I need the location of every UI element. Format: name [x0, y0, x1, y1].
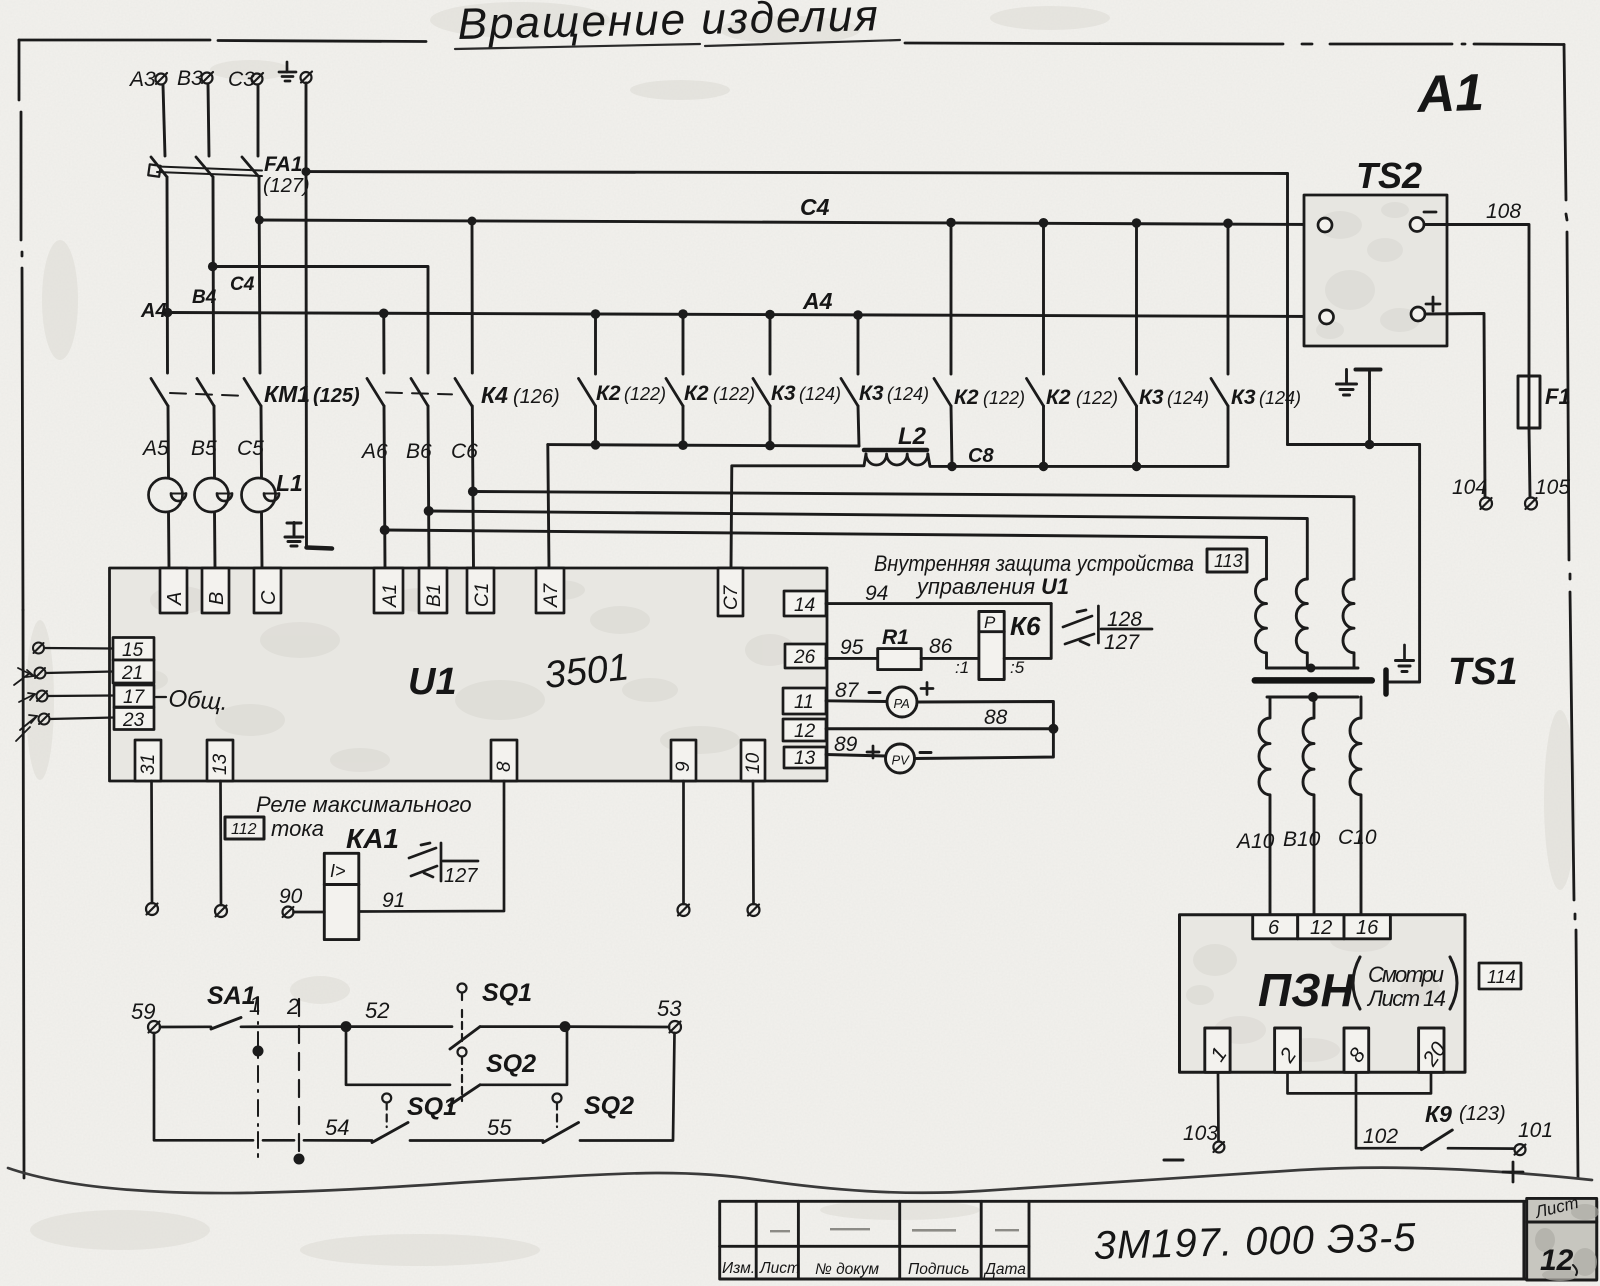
U1 pin 11	[783, 688, 826, 714]
wire pins 2-20 link	[1288, 1072, 1432, 1093]
svg-text:Смотри: Смотри	[1368, 962, 1444, 987]
control unit U1 box	[110, 568, 828, 781]
svg-text:А5: А5	[141, 437, 169, 460]
node C6 tap	[468, 217, 477, 226]
wire 87 pin 11 to ammeter	[826, 699, 887, 703]
svg-text:105: 105	[1535, 476, 1570, 499]
FA1 linkage bar	[157, 167, 262, 177]
svg-text:К6: К6	[1010, 611, 1041, 641]
torn paper edge	[8, 1168, 1592, 1193]
wire PE down to earth (left of U1)	[305, 172, 308, 547]
limit switch SQ1 (upper)	[458, 984, 467, 1045]
svg-text:В1: В1	[424, 584, 445, 607]
svg-text:А1: А1	[1414, 64, 1484, 124]
limit switch SQ1 (lower)	[382, 1094, 391, 1128]
contact K3 (124) #1 top wire	[769, 315, 772, 375]
svg-text:114: 114	[1487, 967, 1516, 987]
svg-text:тока: тока	[271, 816, 324, 841]
wire K2#3 to C8	[951, 406, 952, 466]
svg-text:54: 54	[325, 1115, 349, 1140]
wire A6 junction to TS1 coil 1	[385, 530, 1267, 579]
svg-text:С4: С4	[230, 274, 255, 295]
K4 dashed linkage	[386, 393, 452, 395]
transformer TS1 secondary winding 1	[1259, 697, 1270, 914]
relay coil K6 (P)	[979, 612, 1004, 680]
svg-text:Подпись: Подпись	[908, 1261, 969, 1278]
wire C4 bus	[259, 220, 1318, 225]
svg-text:Лист: Лист	[759, 1260, 800, 1277]
wire terminal 90 to KA1	[294, 911, 325, 914]
svg-text:С10: С10	[1338, 826, 1377, 849]
PZN bottom pin 8	[1344, 1028, 1370, 1072]
svg-text:102: 102	[1363, 1125, 1398, 1148]
svg-text:89: 89	[834, 733, 858, 756]
wire terminal to pin 21	[46, 672, 114, 674]
svg-text:С: С	[258, 590, 280, 605]
svg-text:А4: А4	[140, 300, 167, 322]
PZN bottom pin 1	[1205, 1028, 1232, 1072]
node K3#2 on A4	[853, 310, 863, 320]
contactor KM1 pole A	[151, 379, 168, 407]
wire A7 bus	[548, 445, 859, 446]
svg-text:127: 127	[1104, 631, 1140, 654]
wire C6 K4 to junction and U1 pin C1	[472, 406, 473, 568]
node K2#2 on A7 bus	[678, 440, 688, 450]
wire SQ2 branch (lower parallel)	[346, 1027, 450, 1085]
box 114	[1479, 963, 1521, 989]
U1 pin B	[202, 568, 229, 613]
U1 pin 17	[114, 685, 154, 708]
wire K2#4 to C8	[1042, 406, 1045, 466]
voltmeter PV	[886, 744, 915, 773]
KM1 dashed linkage	[170, 393, 238, 396]
svg-text:15: 15	[122, 640, 144, 661]
svg-text:В10: В10	[1283, 828, 1321, 851]
wire B6 K4 to junction and U1 pin B1	[428, 406, 429, 568]
svg-text:87: 87	[835, 679, 860, 702]
wire K3#2 to A7 bus	[858, 406, 859, 446]
svg-text:(124): (124)	[887, 384, 929, 404]
svg-text:С5: С5	[237, 437, 264, 460]
node K3#3 on C4	[1132, 218, 1142, 228]
terminal below pin 31	[146, 903, 158, 915]
wire 91 KA1 to U1 pin 8	[359, 781, 504, 912]
svg-text:Р: Р	[984, 613, 996, 632]
wire A6 from A4 bus to K4	[382, 313, 385, 373]
wire phase A3 down to FA1	[163, 85, 165, 156]
terminal below pin 13	[215, 905, 227, 917]
node K3#4 on C4	[1223, 219, 1233, 229]
wire SQ2 return to node 53a	[480, 1027, 567, 1085]
svg-text:С8: С8	[968, 445, 994, 467]
U1 pin 26	[785, 644, 826, 668]
svg-text:В4: В4	[192, 287, 217, 308]
terminal C3	[252, 73, 264, 85]
minus sign at 103	[1164, 1159, 1183, 1162]
node 52	[341, 1021, 352, 1032]
node 88	[1048, 724, 1058, 734]
svg-text:21: 21	[121, 663, 143, 684]
svg-text:(122): (122)	[624, 384, 666, 404]
node on position line 2	[294, 1154, 305, 1165]
svg-text:TS1: TS1	[1448, 651, 1518, 693]
node K2#4 on C4	[1039, 218, 1049, 228]
svg-text:9: 9	[673, 761, 694, 772]
contactor K4 pole B6	[411, 379, 428, 407]
svg-text:А4: А4	[802, 288, 833, 314]
wire K2#1 to A7 bus	[594, 406, 597, 445]
minus sign at PV	[920, 751, 931, 754]
terminal B3	[202, 72, 214, 84]
wire lower branch to terminal 53	[580, 1033, 675, 1141]
svg-text:16: 16	[1356, 917, 1379, 939]
svg-text:59: 59	[131, 999, 155, 1024]
svg-text:R1: R1	[882, 626, 909, 649]
svg-text:127: 127	[444, 865, 478, 887]
svg-text:13: 13	[210, 753, 231, 775]
svg-text:U1: U1	[408, 661, 457, 703]
plus sign at 101	[1503, 1162, 1523, 1182]
svg-text:Общ.: Общ.	[168, 685, 229, 716]
svg-text:101: 101	[1518, 1119, 1553, 1142]
wire PA to node 88	[917, 702, 1053, 729]
contact K3 (124) #3 blade	[1120, 379, 1137, 407]
TS1 core	[1255, 677, 1372, 684]
U1 pin A7	[536, 568, 564, 613]
svg-text:А10: А10	[1235, 830, 1275, 853]
svg-text:12: 12	[794, 721, 816, 742]
wire 89 pin 13 to voltmeter	[826, 755, 886, 757]
current transformer L1 phase C	[242, 478, 280, 512]
svg-text:12: 12	[1540, 1244, 1574, 1277]
svg-text:112: 112	[231, 821, 257, 838]
svg-text:К3: К3	[1231, 386, 1256, 409]
svg-text:Изм.: Изм.	[722, 1260, 755, 1277]
wire pin 1 to terminal 103	[1217, 1072, 1220, 1141]
wire pin 31 to terminal	[150, 781, 153, 903]
svg-text:1: 1	[249, 992, 261, 1017]
svg-text:SQ1: SQ1	[482, 979, 532, 1007]
fuse F1	[1518, 376, 1540, 428]
svg-text:86: 86	[929, 635, 953, 658]
wire fuse to terminal 105	[1529, 428, 1530, 497]
svg-text:(126): (126)	[513, 386, 560, 408]
wire K3#4 to C8	[1227, 406, 1230, 466]
svg-text:94: 94	[865, 582, 888, 605]
wire 59 to SA1	[160, 1025, 211, 1028]
svg-text:53: 53	[657, 996, 682, 1021]
transformer TS1 secondary winding 2	[1303, 697, 1314, 914]
plus sign at PV	[867, 746, 879, 758]
contact K2 (122) #4 blade	[1027, 379, 1044, 407]
minus sign at PA	[869, 691, 880, 694]
wire PE from ground terminal down	[305, 83, 308, 171]
node K2#4 on C8	[1039, 462, 1049, 472]
KA1 auxiliary contact symbol 127	[409, 843, 478, 881]
svg-text:С1: С1	[472, 583, 493, 607]
wire pin 10 to terminal	[752, 781, 755, 904]
U1 pin 31	[135, 740, 161, 781]
wire A4 bus	[168, 313, 1319, 317]
wire A7 bus down to U1 pin A7	[548, 445, 549, 568]
limit switch SQ2 (upper pair)	[458, 1048, 467, 1102]
node K2#1 on A4	[591, 309, 601, 319]
input terminal 15	[33, 643, 44, 654]
node K2#3 on C4	[946, 218, 956, 228]
node A6 to TS1 tap	[380, 525, 390, 535]
transformer TS1 primary winding 3	[1343, 579, 1354, 668]
wire B5 CT to U1 pin B	[213, 512, 216, 568]
contact K2 (122) #3 top wire	[950, 223, 953, 375]
node PE tap	[302, 167, 311, 176]
wire A5	[167, 406, 170, 478]
wire phase B3 down to FA1	[208, 84, 209, 156]
wire phase B FA1 to B4 tap and KM1	[212, 177, 215, 373]
svg-text:А7: А7	[541, 582, 562, 608]
svg-text:17: 17	[123, 687, 146, 708]
svg-text:С4: С4	[800, 194, 830, 220]
svg-text:А: А	[164, 592, 186, 606]
TS1 secondary star bus	[1267, 696, 1358, 699]
svg-text:КА1: КА1	[346, 823, 399, 854]
svg-text:№ докум: № докум	[815, 1261, 879, 1278]
wire PV to node 88	[915, 729, 1054, 759]
svg-text:К2: К2	[1046, 386, 1071, 409]
svg-text:2: 2	[286, 994, 299, 1019]
svg-text:TS2: TS2	[1356, 155, 1422, 196]
contact K2 (122) #1 blade	[579, 379, 596, 407]
PZN bottom pin 2	[1275, 1028, 1302, 1072]
wire B4 tap to K4 middle	[213, 267, 428, 374]
current transformer L1 phase A	[149, 478, 187, 512]
wire K9 to terminal 101	[1448, 1147, 1514, 1150]
svg-text:КМ1: КМ1	[264, 381, 310, 407]
circuit breaker FA1 pole C	[242, 157, 259, 177]
SA1 position line 1 (dash-dot)	[257, 997, 259, 1157]
svg-text:В5: В5	[191, 437, 217, 460]
node K2#1 on A7 bus	[591, 440, 601, 450]
limit switch SQ2 (lower)	[553, 1094, 562, 1128]
wire lower branch from 59	[154, 1033, 253, 1140]
wire pin 8 to contact K9	[1356, 1072, 1421, 1148]
wire SQ1 to node 53a	[480, 1025, 565, 1028]
plus sign	[1426, 297, 1440, 311]
ground symbol at top input terminal	[279, 62, 296, 81]
svg-text:13: 13	[794, 748, 816, 769]
svg-text:(127): (127)	[263, 175, 310, 197]
node K3#3 on C8	[1132, 462, 1142, 472]
wire pin 9 to terminal	[682, 781, 685, 904]
wire K6 to 94 riser	[1004, 604, 1051, 659]
terminal A3	[156, 73, 168, 85]
wire C5	[260, 406, 263, 478]
U1 pin 10	[741, 740, 765, 781]
PZN top pins 6 12 16	[1253, 915, 1391, 939]
svg-text:90: 90	[279, 885, 303, 908]
svg-text:I>: I>	[330, 861, 346, 881]
U1 pin 23	[114, 708, 154, 732]
svg-text:SQ2: SQ2	[584, 1092, 634, 1120]
svg-text:К3: К3	[859, 382, 884, 405]
svg-text:В3: В3	[177, 67, 203, 90]
node on position line 1	[253, 1046, 264, 1057]
svg-text:103: 103	[1183, 1122, 1218, 1145]
svg-text:SQ2: SQ2	[486, 1050, 536, 1078]
TS2 terminal AC top-left	[1318, 218, 1332, 232]
wire 88 from pin 12	[826, 727, 1053, 730]
wire L2 left lead to U1 pin C7	[731, 454, 866, 568]
current transformer L1 phase B	[195, 478, 233, 512]
contact K2 (122) #2 blade	[666, 379, 683, 407]
terminal below pin 9	[678, 904, 690, 916]
node PE ground junction	[1365, 440, 1375, 450]
TS1 screen bar	[1383, 670, 1389, 694]
svg-text:(124): (124)	[1259, 388, 1301, 408]
node C4 tap on phase C	[255, 216, 264, 225]
contact K3 (124) #4 top wire	[1227, 223, 1230, 374]
svg-text:3М197. 000 Э3-5: 3М197. 000 Э3-5	[1093, 1216, 1417, 1268]
svg-text:К4: К4	[481, 382, 508, 408]
svg-text:11: 11	[794, 692, 814, 713]
arrow marks at left terminals	[14, 668, 37, 741]
node K3#1 on A7 bus	[765, 441, 775, 451]
node B6 to TS1 tap	[424, 506, 434, 516]
label (Смотри Лист 14)	[1353, 957, 1360, 1009]
svg-text:К9: К9	[1425, 1101, 1452, 1127]
wire node 52 to SQ1	[346, 1025, 452, 1028]
title block	[720, 1198, 1597, 1280]
U1 pin 13 bottom	[207, 740, 233, 781]
wire node 53a to terminal 53	[565, 1025, 669, 1028]
PZN unit box	[1180, 915, 1466, 1073]
ground symbol below TS2	[1337, 370, 1381, 445]
TS2 terminal plus	[1411, 307, 1425, 321]
node K2#2 on A4	[678, 309, 688, 319]
node K2#3 on C8	[947, 462, 957, 472]
K6 auxiliary contact symbol 128/127	[1063, 606, 1152, 645]
svg-text:95: 95	[840, 636, 864, 659]
wire C6 junction to TS1 coil 3	[473, 492, 1354, 580]
wire K2#2 to A7 bus	[682, 406, 685, 445]
svg-text:26: 26	[793, 647, 816, 668]
U1 pin 21	[113, 660, 154, 684]
wire SA1 to node 52	[241, 1025, 346, 1028]
contactor K4 pole C6	[455, 379, 472, 407]
svg-text:3501: 3501	[543, 646, 631, 697]
wire K3#3 to C8	[1135, 406, 1138, 466]
svg-text:ПЗН: ПЗН	[1258, 964, 1355, 1016]
svg-text:(125): (125)	[313, 385, 360, 407]
wire PE horizontal (top, from ground line to TS2 side)	[306, 172, 1288, 174]
transformer TS1 primary winding 2	[1296, 579, 1307, 668]
svg-text:РА: РА	[894, 696, 910, 711]
transformer TS1 secondary winding 3	[1350, 697, 1361, 914]
svg-text:управления U1: управления U1	[915, 574, 1069, 599]
overcurrent relay KA1	[324, 853, 359, 939]
node TS1 secondary star	[1308, 692, 1318, 702]
svg-text:108: 108	[1486, 200, 1521, 223]
svg-text:104: 104	[1452, 476, 1487, 499]
box 112	[225, 817, 264, 839]
svg-text:(122): (122)	[1076, 388, 1118, 408]
svg-text:А1: А1	[380, 584, 401, 608]
U1 pin 8	[491, 740, 517, 781]
plus sign at PA	[921, 683, 933, 695]
svg-text:(122): (122)	[983, 388, 1025, 408]
svg-text:Внутренняя защита устройства: Внутренняя защита устройства	[874, 551, 1194, 576]
contact K2 (122) #2 top wire	[682, 314, 685, 374]
svg-text:В: В	[206, 592, 228, 605]
contact K2 (122) #1 top wire	[594, 314, 597, 374]
wire 108 (minus output)	[1424, 225, 1529, 377]
wire A6 K4 to junction and U1 pin A1	[384, 406, 385, 568]
wire 94 from pin 14	[826, 602, 1051, 605]
input terminal 17	[37, 691, 48, 702]
terminal 105	[1525, 498, 1537, 510]
terminal below pin 10	[748, 904, 760, 916]
node K3#1 on A4	[765, 310, 775, 320]
input terminal 23	[39, 714, 50, 725]
wire A5 CT to U1 pin A	[167, 512, 170, 568]
ammeter PA	[887, 687, 917, 717]
wire PE down to TS1 screen	[1389, 445, 1420, 683]
minus sign	[1424, 211, 1436, 214]
U1 pin A1	[374, 568, 403, 613]
title block captions	[722, 1260, 1026, 1278]
svg-text:91: 91	[382, 889, 405, 912]
contact K3 (124) #1 blade	[753, 379, 770, 407]
transformer TS1 primary winding 1	[1255, 579, 1266, 668]
wire PE down left of TS2	[1286, 174, 1289, 445]
svg-text:31: 31	[138, 754, 159, 775]
U1 pin C7	[718, 568, 743, 616]
terminal 90	[283, 907, 294, 918]
wire phase A FA1 to A4 tap and KM1	[166, 177, 169, 373]
contact K9 (123)	[1421, 1130, 1452, 1150]
earth symbol below PE line	[285, 523, 332, 549]
node 53a	[560, 1021, 571, 1032]
svg-text:SQ1: SQ1	[407, 1093, 457, 1121]
U1 pin 15	[113, 638, 154, 662]
sheet title "Вращение изделия" (handwritten)	[457, 0, 880, 49]
wire 86 R1 to K6	[921, 657, 979, 660]
svg-text:Реле максимального: Реле максимального	[256, 792, 472, 817]
switch SA1 blade	[211, 1018, 241, 1030]
PZN bottom pin 20	[1418, 1028, 1451, 1072]
wire terminal to pin 17	[48, 694, 115, 697]
input terminal 21	[35, 668, 46, 679]
wire lower branch segment	[263, 1139, 372, 1142]
label Общ.	[156, 696, 166, 698]
svg-text:К3: К3	[771, 382, 796, 405]
terminal 59	[148, 1021, 160, 1033]
wire phase C FA1 to C4 tap and KM1	[259, 177, 260, 373]
ground input terminal	[301, 72, 313, 84]
svg-text:6: 6	[1268, 917, 1280, 939]
reactor L2 core bar	[864, 448, 927, 453]
svg-text:(124): (124)	[1167, 388, 1209, 408]
contact K3 (124) #2 top wire	[857, 315, 860, 374]
terminal 104	[1480, 498, 1492, 510]
svg-text:128: 128	[1107, 608, 1142, 631]
terminal 101	[1515, 1144, 1526, 1155]
U1 pin 12	[783, 719, 826, 742]
SA1 position line 2 (dashed)	[298, 999, 300, 1160]
svg-text:F1: F1	[1545, 384, 1571, 409]
svg-text:FA1: FA1	[264, 153, 303, 176]
ground symbol at TS1	[1396, 645, 1414, 672]
wire C5 CT to U1 pin C	[260, 512, 263, 568]
